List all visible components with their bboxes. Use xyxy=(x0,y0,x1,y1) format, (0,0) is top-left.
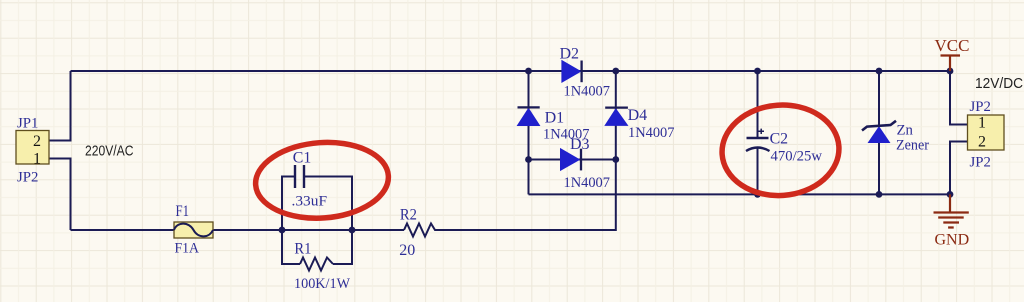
svg-text:2: 2 xyxy=(33,133,41,150)
annotation red ellipse around C2 xyxy=(719,101,842,199)
svg-text:JP2: JP2 xyxy=(17,170,38,186)
wire D3 row xyxy=(529,159,616,161)
svg-text:1N4007: 1N4007 xyxy=(628,125,675,141)
svg-text:20: 20 xyxy=(399,242,415,259)
svg-text:VCC: VCC xyxy=(935,36,970,55)
wire top rail VCC net xyxy=(71,70,951,72)
svg-text:Zener: Zener xyxy=(896,138,929,154)
svg-text:C1: C1 xyxy=(293,150,312,167)
power port VCC xyxy=(935,36,970,71)
svg-text:JP2: JP2 xyxy=(970,155,991,171)
wire bottom AC rail xyxy=(71,160,616,231)
capacitor C1 xyxy=(292,150,328,210)
capacitor C2 polarized xyxy=(746,129,822,165)
svg-text:.33uF: .33uF xyxy=(292,194,328,210)
svg-text:D3: D3 xyxy=(570,136,590,153)
connector JP2 xyxy=(968,99,1005,171)
zener diode Zn xyxy=(862,121,929,154)
svg-text:Zn: Zn xyxy=(897,123,914,139)
svg-text:1N4007: 1N4007 xyxy=(564,175,611,191)
svg-text:GND: GND xyxy=(935,232,970,249)
svg-text:R2: R2 xyxy=(400,207,417,224)
svg-text:1N4007: 1N4007 xyxy=(564,84,611,100)
wire GND rail xyxy=(529,193,951,195)
svg-text:D2: D2 xyxy=(560,46,580,63)
svg-text:12V/DC: 12V/DC xyxy=(975,76,1023,92)
wire R1 branch xyxy=(282,230,352,264)
wire JP2 pin 2 to GND rail xyxy=(950,142,968,195)
svg-text:470/25w: 470/25w xyxy=(771,149,823,165)
wire C1 branch xyxy=(282,177,352,231)
diode D1 xyxy=(518,107,590,142)
connector JP1 xyxy=(16,116,49,186)
wire C2 column xyxy=(757,71,759,194)
diode D4 xyxy=(605,107,674,141)
resistor R1 xyxy=(294,241,350,293)
annotation red ellipse around C1 xyxy=(253,138,391,222)
wire zener column xyxy=(878,71,880,194)
svg-text:1: 1 xyxy=(978,115,986,132)
wire bridge left vertical xyxy=(528,71,530,194)
resistor R2 xyxy=(399,207,438,260)
svg-text:2: 2 xyxy=(978,134,986,151)
wire left vertical from top rail to JP1 pin 2 xyxy=(49,71,71,141)
svg-text:R1: R1 xyxy=(294,241,311,258)
wire bridge right vertical xyxy=(615,71,617,160)
svg-text:C2: C2 xyxy=(770,131,789,148)
svg-text:JP2: JP2 xyxy=(970,99,991,115)
wire right vertical to JP2 pin 1 xyxy=(950,71,968,125)
wire JP1 pin 1 to bottom rail xyxy=(49,159,71,231)
svg-text:F1A: F1A xyxy=(175,241,200,257)
svg-text:220V/AC: 220V/AC xyxy=(85,144,134,160)
svg-text:D4: D4 xyxy=(628,107,648,124)
diode D2 xyxy=(560,46,611,100)
diode D3 xyxy=(561,136,611,191)
power port GND xyxy=(934,194,970,248)
svg-text:1: 1 xyxy=(33,151,41,168)
svg-text:JP1: JP1 xyxy=(17,116,38,132)
svg-text:F1: F1 xyxy=(176,203,190,220)
svg-text:D1: D1 xyxy=(545,110,565,127)
svg-text:100K/1W: 100K/1W xyxy=(294,276,350,292)
fuse F1 xyxy=(174,203,213,257)
